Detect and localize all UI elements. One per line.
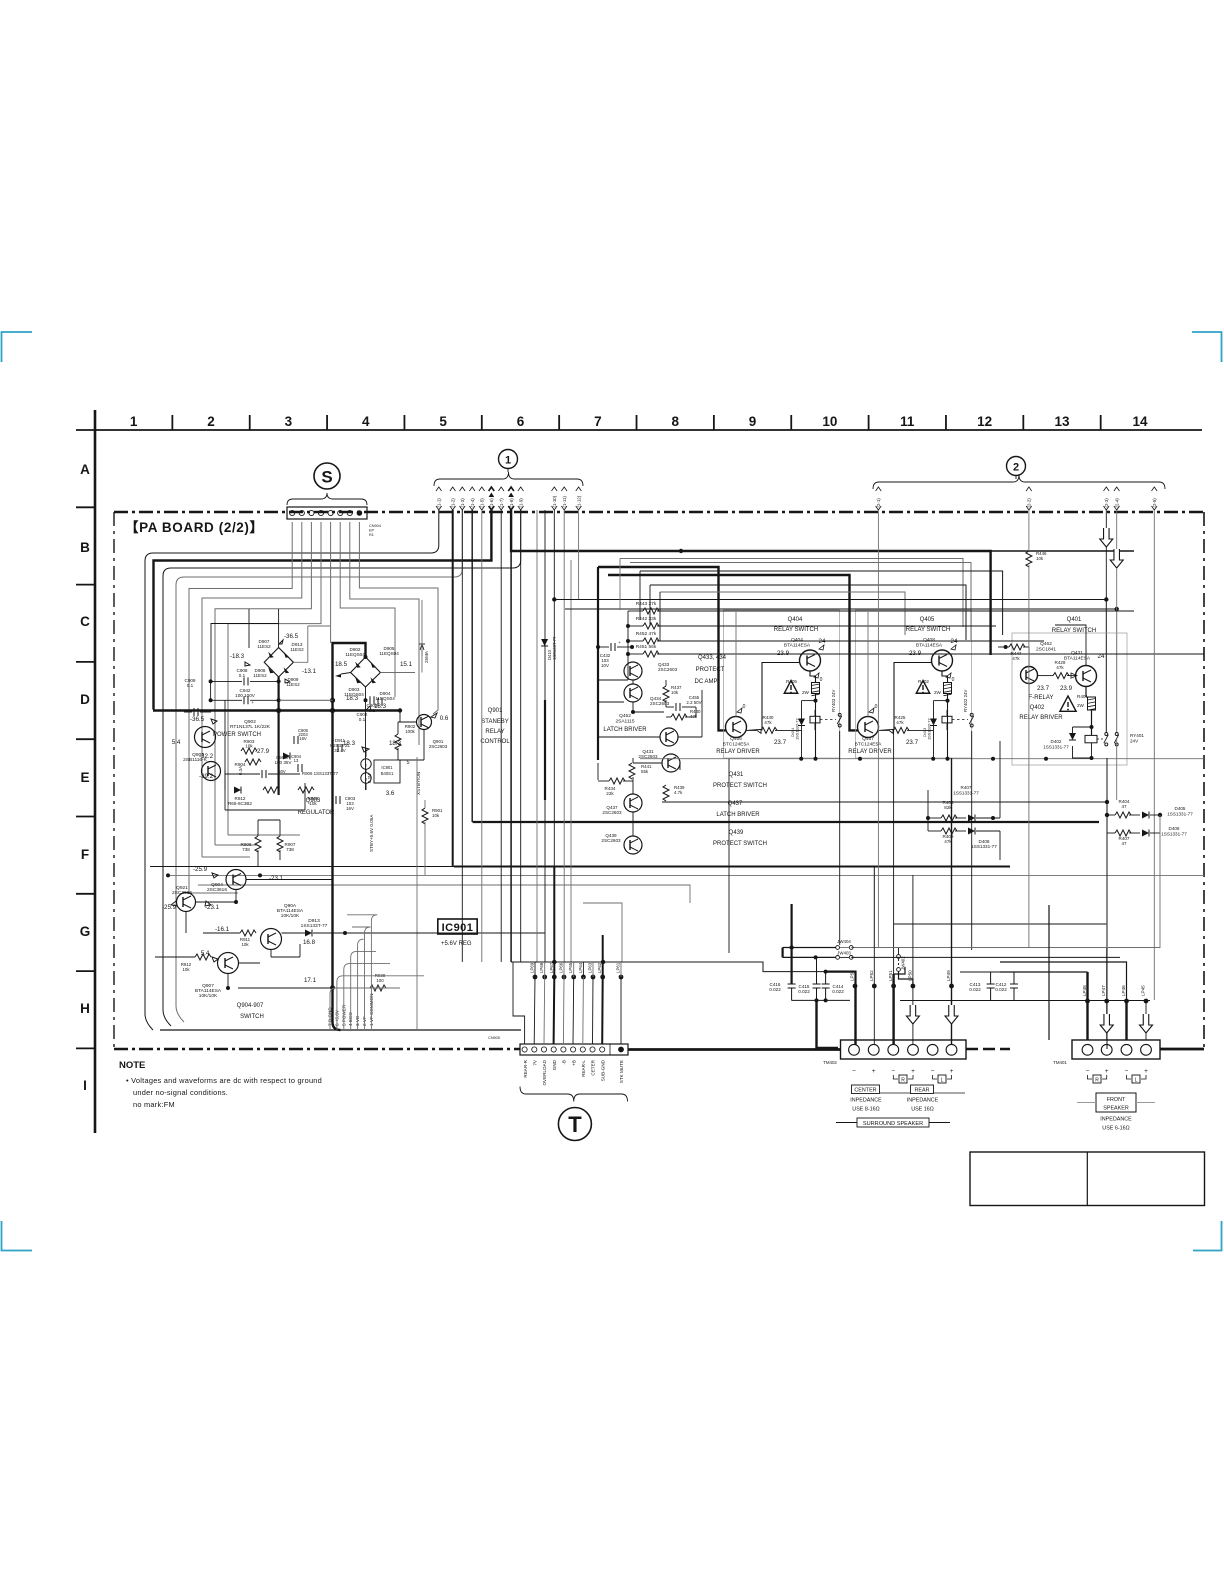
svg-text:TM401: TM401: [1053, 1060, 1067, 1065]
svg-text:47: 47: [1121, 841, 1127, 846]
svg-text:REAR-R: REAR-R: [523, 1059, 528, 1077]
wires switch cluster: [246, 879, 332, 881]
svg-text:738: 738: [242, 847, 250, 852]
wire x307 bridge1 right: [293, 626, 330, 662]
svg-text:11ES2: 11ES2: [286, 682, 300, 687]
LP dots TM402 row: [853, 984, 858, 989]
capacitor C414: [822, 983, 830, 985]
svg-text:Q904-907: Q904-907: [237, 1003, 264, 1009]
svg-text:1: 1: [130, 414, 138, 429]
svg-text:0.022: 0.022: [832, 989, 844, 994]
wires regulator: [224, 700, 226, 790]
resistor R912b: [195, 954, 211, 960]
crop mark bottom-left: [2, 1221, 33, 1251]
capacitor C906: [293, 736, 295, 744]
svg-text:13: 13: [1054, 414, 1070, 429]
svg-text:0.1: 0.1: [369, 708, 376, 713]
bus thick y1030: [160, 1029, 521, 1031]
svg-text:INPEDANCE: INPEDANCE: [1100, 1117, 1132, 1123]
svg-text:(1-2): (1-2): [451, 498, 456, 508]
svg-text:18.5: 18.5: [335, 661, 348, 668]
svg-text:11ES2: 11ES2: [257, 644, 271, 649]
wires feeding LP row from above: [873, 866, 875, 947]
capacitor C942 row: [243, 696, 245, 704]
circled T: [558, 1108, 591, 1141]
svg-text:3.6: 3.6: [386, 790, 395, 797]
svg-text:Q401: Q401: [1067, 617, 1082, 623]
junction dots bridge2: [364, 655, 368, 659]
grid column ticks: [94, 415, 96, 430]
svg-text:11EQS04: 11EQS04: [379, 651, 399, 656]
svg-text:(1-7): (1-7): [499, 498, 504, 508]
wire loop CN904 pin4: [228, 522, 321, 835]
capacitor C432: [610, 643, 612, 651]
svg-text:S: S: [321, 468, 332, 487]
capacitor C904: [297, 764, 299, 772]
svg-text:REGULATOR: REGULATOR: [298, 810, 335, 816]
svg-text:−: −: [1086, 1068, 1090, 1075]
svg-text:(1-9): (1-9): [519, 498, 524, 508]
svg-text:PROTECT SWITCH: PROTECT SWITCH: [713, 783, 767, 789]
bus y948 gray segment: [851, 947, 1160, 949]
svg-text:REAR-L: REAR-L: [581, 1060, 586, 1077]
TM402 L bracket: [933, 1075, 937, 1079]
warning triangle Q404: [784, 681, 798, 694]
svg-text:11ES2: 11ES2: [290, 647, 304, 652]
svg-text:11ES2: 11ES2: [253, 673, 267, 678]
svg-text:10K/10K: 10K/10K: [199, 993, 218, 999]
svg-text:INPEDANCE: INPEDANCE: [850, 1098, 882, 1104]
wire driver collector Q457: [867, 700, 869, 717]
svg-text:100 35V: 100 35V: [274, 760, 292, 765]
svg-text:LP68: LP68: [539, 962, 544, 973]
svg-text:SPEAKER: SPEAKER: [1103, 1106, 1129, 1112]
svg-text:+: +: [1105, 1068, 1109, 1075]
svg-text:13: 13: [294, 758, 299, 763]
bus gray loop b: [630, 563, 971, 641]
diode D403: [934, 700, 948, 702]
label SURROUND SPEAKER: [857, 1118, 929, 1127]
capacitor C905A: [261, 770, 263, 778]
svg-text:CONTROL: CONTROL: [480, 739, 510, 745]
bus thick y822: [473, 821, 1099, 823]
bridge rectifier D902-D905: [351, 657, 381, 687]
board border right dash-dot: [1203, 512, 1205, 1049]
svg-text:R401: R401: [1077, 694, 1088, 699]
crop mark bottom-right: [1193, 1221, 1222, 1251]
svg-text:10: 10: [822, 414, 837, 429]
svg-text:+: +: [618, 640, 621, 645]
wire y924 link: [894, 923, 1107, 925]
svg-text:24: 24: [1098, 653, 1105, 660]
svg-text:Q452: Q452: [619, 713, 631, 719]
connector CN905: [520, 1044, 628, 1055]
svg-text:1SS133T-77: 1SS133T-77: [795, 718, 800, 740]
svg-text:B40S1: B40S1: [381, 771, 394, 776]
wire driver collector Q456: [735, 700, 737, 717]
wire loop 1-9 to left: [163, 510, 521, 1026]
svg-text:2SC3616: 2SC3616: [172, 890, 192, 896]
svg-text:R: R: [1095, 1078, 1099, 1084]
resistors R906 R907 vertical: [255, 836, 261, 852]
svg-text:DC AMP: DC AMP: [694, 679, 717, 685]
svg-text:18.3: 18.3: [343, 740, 356, 747]
svg-text:SURROUND SPEAKER: SURROUND SPEAKER: [863, 1121, 923, 1127]
wire x417 long drop: [416, 800, 418, 1030]
diode D402: [1069, 733, 1076, 740]
svg-text:6: 6: [517, 414, 525, 429]
bus left stubs: [597, 567, 599, 760]
wire loop CN904 pin3: [215, 522, 311, 845]
svg-text:【PA BOARD (2/2)】: 【PA BOARD (2/2)】: [125, 520, 264, 535]
svg-text:-27.9: -27.9: [255, 748, 270, 755]
svg-text:2SC3616: 2SC3616: [207, 887, 227, 893]
wire LP52 drop: [873, 947, 875, 1045]
jumper JW402: [897, 955, 901, 959]
svg-text:1SS133T-77: 1SS133T-77: [301, 923, 328, 929]
wire loop CN904 pin1: [189, 522, 292, 893]
wire bus y885 gray: [198, 885, 690, 903]
svg-text:-39.2: -39.2: [199, 773, 214, 780]
bus thick to Q456: [598, 567, 726, 730]
bus gray loop a: [620, 559, 963, 628]
resistor R447: [1009, 644, 1025, 650]
svg-text:9: 9: [749, 414, 757, 429]
svg-text:PROTECT SWITCH: PROTECT SWITCH: [713, 841, 767, 847]
svg-text:LP50: LP50: [907, 970, 912, 981]
svg-text:LP69: LP69: [530, 962, 535, 973]
svg-text:-13.1: -13.1: [302, 668, 317, 675]
capacitor C455: [675, 703, 677, 711]
svg-text:0: 0: [743, 704, 746, 710]
bus gray y758: [640, 758, 1204, 760]
svg-text:4.7k: 4.7k: [674, 790, 683, 795]
wire base Q404: [762, 663, 800, 731]
transistor Q901 top: [417, 715, 432, 730]
svg-text:RY402 24V: RY402 24V: [963, 690, 968, 712]
svg-text:1SS1331-77: 1SS1331-77: [1167, 812, 1193, 817]
transistor Q902: [195, 727, 216, 748]
wire loop 1-3 gray to left: [176, 510, 462, 1022]
svg-text:D402: D402: [1051, 739, 1062, 744]
svg-text:RELAY BRIVER: RELAY BRIVER: [1019, 715, 1063, 721]
wire 1-2 bold column: [452, 510, 454, 866]
TM402 R bracket: [893, 1075, 898, 1079]
grid ruler top line: [76, 429, 1202, 431]
capacitor C908 row: [243, 677, 245, 685]
capacitor C901 plus: [337, 744, 339, 752]
svg-text:Q405: Q405: [920, 617, 935, 623]
bus gray loop e: [660, 592, 905, 635]
svg-text:NOTE: NOTE: [119, 1060, 145, 1071]
svg-text:D403: D403: [922, 728, 927, 737]
wire 2-2 drop with R446: [1028, 510, 1030, 551]
svg-text:(1-3): (1-3): [460, 498, 465, 508]
svg-text:2SC2603: 2SC2603: [429, 744, 448, 749]
svg-text:10k: 10k: [671, 690, 679, 695]
svg-text:23.9: 23.9: [909, 650, 922, 657]
bus thick horizontal y710: [153, 709, 400, 712]
wire relay drop Q404: [814, 710, 816, 716]
svg-text:-23.1: -23.1: [269, 875, 284, 882]
svg-text:JW403: JW403: [837, 951, 851, 956]
svg-text:1SS1331-77: 1SS1331-77: [953, 791, 979, 796]
resistor R437: [663, 686, 669, 702]
svg-text:10k: 10k: [1036, 556, 1044, 561]
svg-text:R452 47k: R452 47k: [636, 631, 657, 637]
svg-text:LP65: LP65: [568, 962, 573, 973]
bus y962 long: [511, 962, 824, 972]
wire LP49 drop: [951, 986, 953, 1005]
svg-text:CENTER: CENTER: [854, 1088, 876, 1094]
svg-text:H: H: [80, 1001, 90, 1016]
svg-text:2SC2603: 2SC2603: [601, 838, 621, 843]
wires Q401 block: [998, 646, 1009, 648]
svg-text:L: L: [1135, 1078, 1138, 1084]
svg-text:LP62: LP62: [597, 962, 602, 973]
svg-text:−: −: [1125, 1068, 1129, 1075]
svg-text:Q433, 434: Q433, 434: [698, 655, 727, 661]
wire collector Q405: [942, 671, 948, 683]
label REAR box: [911, 1085, 934, 1094]
svg-text:47k: 47k: [1056, 665, 1064, 670]
svg-text:-25.9: -25.9: [162, 904, 177, 911]
bold feed Z link: [781, 948, 783, 958]
wire Q405 contact drop: [971, 731, 973, 950]
svg-text:LP61: LP61: [616, 962, 621, 973]
capacitor C416: [788, 983, 796, 985]
svg-text:11EQS04: 11EQS04: [345, 652, 365, 657]
svg-text:100: 100: [376, 978, 384, 983]
wire 1-4 column: [471, 510, 473, 822]
svg-text:LP45: LP45: [1141, 985, 1146, 996]
svg-text:D405: D405: [1175, 806, 1186, 811]
svg-text:STANEBY: STANEBY: [481, 719, 509, 725]
brace S: [287, 493, 367, 505]
svg-text:-B: -B: [562, 1060, 567, 1065]
svg-text:RELAY: RELAY: [485, 729, 504, 735]
svg-text:+: +: [950, 1068, 954, 1075]
svg-text:INPEDANCE: INPEDANCE: [907, 1098, 939, 1104]
svg-text:2SC2603: 2SC2603: [650, 701, 670, 706]
svg-text:0.022: 0.022: [769, 987, 781, 992]
svg-text:GND: GND: [552, 1059, 557, 1070]
svg-text:18.3: 18.3: [389, 740, 402, 747]
capacitor C415: [813, 983, 821, 985]
resistor R904: [245, 759, 261, 765]
svg-text:I: I: [83, 1078, 87, 1093]
svg-text:Q457: Q457: [862, 736, 874, 742]
thick border segment right of CN905: [628, 1048, 840, 1051]
bus y609 to relay contacts 2: [565, 608, 1117, 610]
svg-text:E: E: [80, 770, 89, 785]
svg-text:55k: 55k: [641, 769, 649, 774]
revision table: [970, 1152, 1205, 1206]
wire LP50 drop: [912, 986, 914, 1005]
svg-text:−: −: [891, 1068, 895, 1075]
svg-text:LP66: LP66: [559, 962, 564, 973]
svg-text:+: +: [872, 1068, 876, 1075]
wire collector Q404: [810, 671, 816, 683]
svg-text:10V: 10V: [601, 663, 609, 668]
svg-text:no mark:FM: no mark:FM: [133, 1100, 175, 1109]
svg-text:(1-4): (1-4): [470, 498, 475, 508]
svg-text:17.1: 17.1: [304, 977, 317, 984]
diode row regulator: [234, 787, 241, 794]
wire relay drop Q405: [946, 710, 948, 716]
svg-text:R407: R407: [961, 785, 972, 790]
svg-text:L: L: [941, 1078, 944, 1084]
diode D910: [283, 753, 290, 760]
svg-text:LATCH BRIVER: LATCH BRIVER: [603, 727, 647, 733]
circled 1: [499, 450, 518, 469]
bottom rail y1000: [792, 999, 851, 1001]
svg-text:Q408: Q408: [923, 637, 935, 643]
svg-text:25MA: 25MA: [424, 650, 429, 663]
bold cap feed x791.6: [790, 904, 792, 984]
svg-text:Q456: Q456: [730, 736, 742, 742]
resistor R441: [629, 763, 635, 779]
svg-text:8: 8: [671, 414, 679, 429]
svg-text:G: G: [80, 924, 91, 939]
transistor Q431b: [1076, 666, 1097, 687]
bus y957 right segment: [851, 956, 1120, 958]
bus y1000 right: [900, 1000, 1150, 1002]
wire 2-1 drop: [877, 510, 879, 947]
wire 2-4 drop: [1116, 510, 1118, 549]
svg-text:5.4: 5.4: [172, 739, 181, 746]
svg-text:REAR: REAR: [915, 1088, 930, 1094]
svg-text:-36.5: -36.5: [190, 716, 205, 723]
svg-text:Q903: Q903: [306, 798, 321, 804]
brace T: [520, 1087, 628, 1102]
svg-text:-23.1: -23.1: [205, 904, 220, 911]
svg-text:23.7: 23.7: [1037, 685, 1050, 692]
circled 2: [1007, 457, 1026, 476]
wire loop CN904 pin2: [202, 522, 302, 857]
svg-text:STK MUTE: STK MUTE: [619, 1060, 624, 1083]
svg-text:(2-2): (2-2): [1027, 498, 1032, 508]
svg-text:TM402: TM402: [823, 1060, 837, 1065]
wire 2-5 drop: [1153, 510, 1155, 1000]
LP dots TM401 row: [1085, 999, 1090, 1004]
svg-text:−: −: [852, 1068, 856, 1075]
board border left dash-dot: [113, 512, 115, 1049]
svg-text:5: 5: [439, 414, 447, 429]
svg-text:22k: 22k: [606, 791, 614, 796]
bus thick y866: [454, 866, 1010, 868]
svg-text:under no-signal conditions.: under no-signal conditions.: [133, 1088, 228, 1097]
svg-text:2SC2603: 2SC2603: [602, 810, 622, 815]
svg-text:B: B: [80, 540, 90, 555]
grid ruler left line: [94, 410, 97, 1133]
component IC901 B40S1 circles: [361, 759, 371, 769]
svg-text:0: 0: [875, 704, 878, 710]
crop mark top-left: [2, 332, 33, 362]
svg-text:Q402: Q402: [1030, 705, 1045, 711]
wire below R405: [815, 694, 817, 759]
svg-text:CETER: CETER: [591, 1059, 596, 1075]
svg-text:4: 4: [362, 414, 370, 429]
svg-text:3: 3: [285, 414, 293, 429]
svg-text:+: +: [332, 738, 335, 744]
hollow arrows TM401: [1100, 1014, 1113, 1033]
svg-text:LATCH BRIVER: LATCH BRIVER: [716, 812, 760, 818]
wires protect cluster: [598, 679, 628, 681]
wire TM402 left feed: [836, 1049, 841, 1051]
svg-text:+: +: [251, 700, 254, 705]
connector CN904: [287, 507, 367, 519]
bus black loop c: [640, 571, 1003, 635]
wire bridge2 right loop: [380, 600, 422, 673]
svg-text:JW404: JW404: [837, 939, 851, 944]
wire bridge2 bottom: [365, 687, 367, 790]
jumper JW404: [836, 946, 840, 950]
svg-text:Q439: Q439: [729, 830, 744, 836]
svg-text:IC901: IC901: [442, 922, 474, 934]
svg-text:CN905: CN905: [488, 1036, 500, 1040]
wire LP51 drop bold: [892, 974, 894, 1045]
svg-text:0.6: 0.6: [440, 715, 449, 722]
svg-text:+: +: [1144, 1068, 1148, 1075]
wire loop bottoms: [189, 892, 238, 894]
svg-text:2SC2603: 2SC2603: [658, 667, 678, 672]
svg-text:+: +: [911, 1068, 915, 1075]
svg-text:SUB-GND: SUB-GND: [600, 1059, 605, 1081]
svg-text:1SS1331-77: 1SS1331-77: [1043, 745, 1069, 750]
resistor R429: [1053, 673, 1069, 679]
wire CN904 pin6 gray loop right: [340, 522, 395, 697]
capacitor C903: [335, 796, 337, 804]
transistor Q434: [624, 684, 642, 702]
svg-text:2W: 2W: [802, 690, 810, 695]
wires R group left: [627, 611, 629, 680]
TM401 R bracket: [1088, 1075, 1093, 1079]
svg-text:D406: D406: [1169, 826, 1180, 831]
wires right lower: [927, 790, 929, 831]
svg-text:FRONT: FRONT: [1107, 1097, 1126, 1103]
bold wire x603 lower: [602, 935, 604, 977]
svg-text:IC901: IC901: [381, 765, 393, 770]
svg-text:47k: 47k: [764, 720, 772, 725]
capacitor C902: [369, 696, 371, 704]
svg-text:12: 12: [977, 414, 992, 429]
label CENTER box: [852, 1085, 880, 1094]
svg-text:RT1N137L 1K/22K: RT1N137L 1K/22K: [230, 724, 271, 730]
svg-text:2.2 50V: 2.2 50V: [686, 700, 701, 705]
relay block box Q401: [1012, 633, 1127, 765]
svg-text:0: 0: [952, 677, 955, 683]
wire LP53 drop bold: [854, 986, 856, 1045]
svg-text:(1-5): (1-5): [480, 498, 485, 508]
svg-text:RELAY SWITCH: RELAY SWITCH: [774, 627, 818, 633]
svg-text:2W: 2W: [934, 690, 942, 695]
diode D913: [305, 930, 312, 937]
svg-text:1SS1331-77: 1SS1331-77: [971, 844, 997, 849]
svg-text:(2-5): (2-5): [1152, 498, 1157, 508]
svg-text:+5.6V REG: +5.6V REG: [441, 941, 472, 947]
resistor R409 + diode: [941, 828, 957, 834]
svg-text:CN904: CN904: [369, 524, 381, 528]
wire CN904 pin7 gray loop right: [350, 522, 419, 745]
svg-text:1SS133T-77: 1SS133T-77: [552, 636, 557, 660]
svg-text:10k: 10k: [182, 967, 190, 972]
svg-text:EP: EP: [369, 529, 375, 533]
svg-text:10k: 10k: [241, 942, 249, 947]
svg-text:23.9: 23.9: [1060, 685, 1073, 692]
svg-text:R443 27k: R443 27k: [636, 601, 657, 607]
svg-text:R402: R402: [918, 679, 929, 684]
